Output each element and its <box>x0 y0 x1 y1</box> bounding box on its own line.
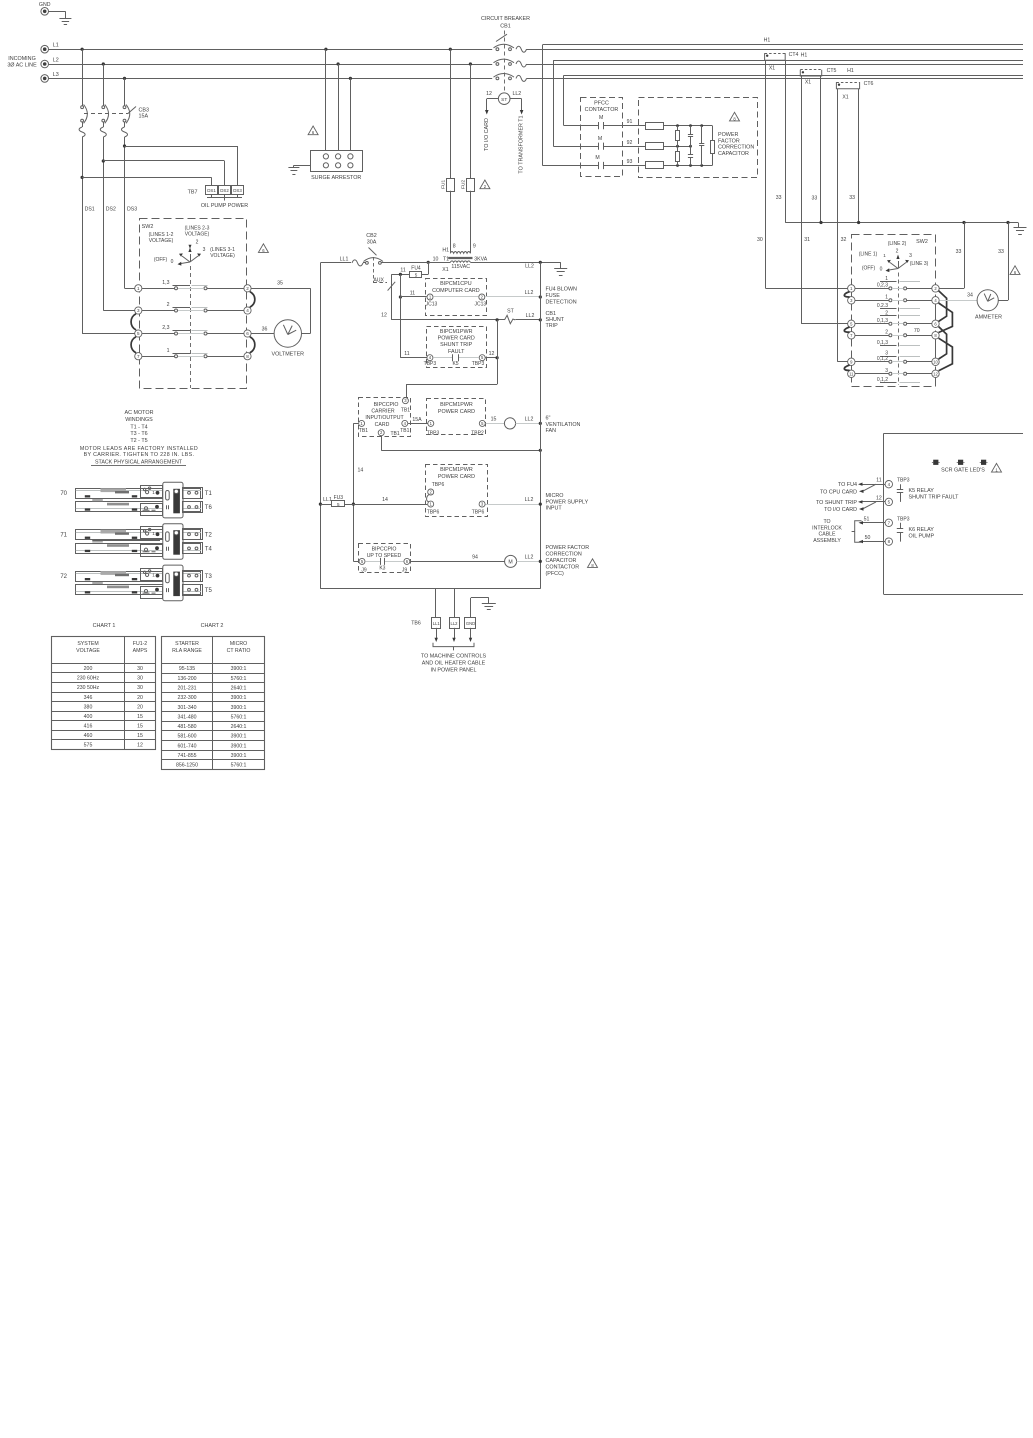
svg-text:L3: L3 <box>53 72 59 78</box>
svg-text:SHUNT TRIP FAULT: SHUNT TRIP FAULT <box>909 495 960 501</box>
svg-text:POWER FACTOR: POWER FACTOR <box>546 545 590 551</box>
svg-text:3900:1: 3900:1 <box>231 734 247 740</box>
svg-text:50: 50 <box>865 535 871 541</box>
svg-text:CT4: CT4 <box>789 52 799 58</box>
svg-text:6": 6" <box>546 415 551 421</box>
svg-text:2: 2 <box>896 249 899 255</box>
svg-text:12: 12 <box>489 351 495 357</box>
svg-text:FU1: FU1 <box>440 180 446 189</box>
svg-text:36: 36 <box>262 327 268 333</box>
svg-text:CARD: CARD <box>375 422 390 428</box>
svg-text:95-135: 95-135 <box>179 666 195 672</box>
svg-text:VOLTAGE): VOLTAGE) <box>149 238 174 244</box>
svg-text:TO I/O CARD: TO I/O CARD <box>824 507 857 513</box>
svg-text:(OFF): (OFF) <box>154 257 168 263</box>
svg-text:DS2: DS2 <box>106 207 116 213</box>
svg-text:30A: 30A <box>367 240 377 246</box>
svg-text:TB1: TB1 <box>391 431 400 437</box>
svg-text:BIPCM1PWR: BIPCM1PWR <box>440 467 473 473</box>
svg-text:34: 34 <box>967 292 973 298</box>
svg-text:COMPUTER CARD: COMPUTER CARD <box>432 288 480 294</box>
svg-text:FACTOR: FACTOR <box>718 138 740 144</box>
svg-text:3Ø AC LINE: 3Ø AC LINE <box>7 63 37 69</box>
svg-text:VENTILATION: VENTILATION <box>546 422 581 428</box>
svg-text:GND: GND <box>466 621 475 626</box>
svg-text:CARRIER: CARRIER <box>371 409 395 415</box>
svg-text:CHART 2: CHART 2 <box>201 623 224 629</box>
svg-text:2: 2 <box>885 310 888 316</box>
svg-text:CAPACITOR: CAPACITOR <box>546 558 577 564</box>
svg-text:12: 12 <box>381 312 387 318</box>
svg-text:3900:1: 3900:1 <box>231 666 247 672</box>
svg-text:TO FU4: TO FU4 <box>838 482 857 488</box>
svg-text:LL2: LL2 <box>512 91 521 97</box>
svg-text:346: 346 <box>84 695 93 701</box>
svg-text:CT6: CT6 <box>864 81 874 87</box>
svg-text:CT5: CT5 <box>827 68 837 74</box>
svg-text:15: 15 <box>137 723 143 729</box>
svg-text:33: 33 <box>812 196 818 202</box>
svg-text:14: 14 <box>358 467 364 473</box>
svg-text:ASSEMBLY: ASSEMBLY <box>813 538 841 544</box>
svg-text:2,3: 2,3 <box>162 325 169 331</box>
svg-text:3900:1: 3900:1 <box>231 753 247 759</box>
svg-text:(OFF): (OFF) <box>862 265 876 271</box>
svg-text:J9: J9 <box>402 567 408 573</box>
svg-text:TO: TO <box>823 519 830 525</box>
svg-text:T3 - T6: T3 - T6 <box>130 431 147 437</box>
svg-text:7: 7 <box>137 354 140 359</box>
svg-text:T3: T3 <box>205 574 213 580</box>
svg-text:LL1: LL1 <box>340 256 349 262</box>
svg-text:8: 8 <box>453 244 456 250</box>
svg-text:K5 RELAY: K5 RELAY <box>909 488 935 494</box>
svg-text:M: M <box>595 155 599 161</box>
svg-text:WINDINGS: WINDINGS <box>125 417 153 423</box>
svg-text:10: 10 <box>433 257 439 263</box>
svg-text:3900:1: 3900:1 <box>231 705 247 711</box>
svg-text:91: 91 <box>627 119 633 125</box>
svg-text:1: 1 <box>885 295 888 301</box>
svg-text:3900:1: 3900:1 <box>231 743 247 749</box>
svg-text:FU3: FU3 <box>334 495 344 501</box>
svg-text:70: 70 <box>914 328 920 334</box>
svg-text:SW2: SW2 <box>916 239 928 245</box>
svg-text:ST: ST <box>501 97 507 103</box>
svg-text:115VAC: 115VAC <box>451 264 470 270</box>
svg-text:LL2: LL2 <box>525 290 534 296</box>
svg-text:1: 1 <box>152 531 155 536</box>
svg-text:INTERLOCK: INTERLOCK <box>812 525 842 531</box>
svg-text:TBP6: TBP6 <box>432 482 445 488</box>
svg-text:AND OIL HEATER CABLE: AND OIL HEATER CABLE <box>422 661 486 667</box>
svg-text:93: 93 <box>627 159 633 165</box>
svg-text:MOTOR LEADS ARE FACTORY INSTAL: MOTOR LEADS ARE FACTORY INSTALLED <box>80 446 198 452</box>
svg-text:30: 30 <box>137 676 143 682</box>
svg-text:1: 1 <box>152 573 155 578</box>
svg-text:LL1: LL1 <box>323 497 332 503</box>
svg-text:TO SHUNT TRIP: TO SHUNT TRIP <box>816 500 857 506</box>
svg-text:TBP3: TBP3 <box>424 361 437 367</box>
svg-text:TO I/O CARD: TO I/O CARD <box>484 118 490 151</box>
svg-text:2: 2 <box>196 240 199 246</box>
svg-text:SHUNT TRIP: SHUNT TRIP <box>440 342 473 348</box>
svg-text:20: 20 <box>137 695 143 701</box>
svg-text:2: 2 <box>246 286 249 291</box>
svg-text:581-600: 581-600 <box>177 734 196 740</box>
svg-text:33: 33 <box>849 195 855 201</box>
svg-text:9: 9 <box>473 244 476 250</box>
svg-text:33: 33 <box>776 195 782 201</box>
svg-text:BIPCM1PWR: BIPCM1PWR <box>440 402 473 408</box>
svg-text:0: 0 <box>880 266 883 272</box>
svg-text:L2: L2 <box>53 57 59 63</box>
svg-text:14: 14 <box>382 497 388 503</box>
svg-text:OIL PUMP POWER: OIL PUMP POWER <box>201 203 248 209</box>
svg-text:TB6: TB6 <box>411 620 421 626</box>
svg-text:TBP3: TBP3 <box>427 430 440 436</box>
svg-text:15A: 15A <box>139 114 149 120</box>
svg-text:(LINE 1): (LINE 1) <box>859 252 878 258</box>
svg-text:32: 32 <box>841 237 847 243</box>
svg-text:71: 71 <box>60 533 67 539</box>
svg-text:94: 94 <box>472 554 478 560</box>
svg-text:741-855: 741-855 <box>177 753 196 759</box>
svg-text:15: 15 <box>137 733 143 739</box>
svg-text:CONTACTOR: CONTACTOR <box>585 107 619 113</box>
svg-text:15A: 15A <box>412 417 422 423</box>
svg-text:TO MACHINE CONTROLS: TO MACHINE CONTROLS <box>421 654 487 660</box>
svg-text:1: 1 <box>137 286 140 291</box>
svg-text:DS2: DS2 <box>220 188 229 193</box>
svg-text:DS3: DS3 <box>233 188 242 193</box>
svg-text:0: 0 <box>171 259 174 265</box>
svg-text:LL2: LL2 <box>525 497 534 503</box>
svg-text:15: 15 <box>137 714 143 720</box>
svg-text:LL2: LL2 <box>525 554 534 560</box>
svg-text:FU1-2: FU1-2 <box>133 641 148 647</box>
svg-text:POWER CARD: POWER CARD <box>438 336 475 342</box>
svg-text:BIPCM1CPU: BIPCM1CPU <box>440 281 472 287</box>
svg-text:POWER: POWER <box>718 132 738 138</box>
svg-text:FU4: FU4 <box>411 266 421 272</box>
svg-text:92: 92 <box>627 140 633 146</box>
svg-text:INPUT: INPUT <box>546 506 563 512</box>
svg-text:VOLTAGE): VOLTAGE) <box>185 232 210 238</box>
svg-text:(LINE 3): (LINE 3) <box>910 261 929 267</box>
svg-text:CT RATIO: CT RATIO <box>227 648 251 654</box>
svg-text:FUSE: FUSE <box>546 293 561 299</box>
svg-text:11: 11 <box>849 371 854 376</box>
svg-text:CONTACTOR: CONTACTOR <box>546 564 580 570</box>
svg-text:L1: L1 <box>53 43 59 49</box>
svg-text:232-300: 232-300 <box>177 695 196 701</box>
svg-text:0,1,2: 0,1,2 <box>877 377 888 383</box>
svg-text:0,1,3: 0,1,3 <box>877 318 888 324</box>
svg-text:TB7: TB7 <box>188 189 198 195</box>
svg-text:230 50Hz: 230 50Hz <box>77 685 100 691</box>
svg-text:200: 200 <box>84 666 93 672</box>
svg-text:460: 460 <box>84 733 93 739</box>
svg-text:TBP3: TBP3 <box>897 478 910 484</box>
svg-text:T4: T4 <box>205 547 213 553</box>
svg-text:FAN: FAN <box>546 428 557 434</box>
svg-text:K3: K3 <box>379 566 385 572</box>
svg-text:30: 30 <box>137 666 143 672</box>
svg-text:416: 416 <box>84 723 93 729</box>
svg-text:1,3: 1,3 <box>162 280 169 286</box>
svg-text:TB1: TB1 <box>359 428 368 434</box>
svg-text:31: 31 <box>804 237 810 243</box>
svg-text:SYSTEM: SYSTEM <box>77 641 98 647</box>
svg-text:TB1: TB1 <box>401 407 410 413</box>
svg-text:SCR GATE LED'S: SCR GATE LED'S <box>941 467 985 473</box>
svg-text:T1: T1 <box>205 491 213 497</box>
svg-text:H1: H1 <box>847 68 854 74</box>
svg-text:12: 12 <box>933 371 938 376</box>
svg-text:30: 30 <box>757 237 763 243</box>
svg-text:T1: T1 <box>443 256 449 262</box>
svg-text:33: 33 <box>956 249 962 255</box>
svg-text:4: 4 <box>246 308 249 313</box>
svg-text:CB2: CB2 <box>366 233 377 239</box>
svg-text:601-740: 601-740 <box>177 743 196 749</box>
svg-text:X1: X1 <box>842 95 848 101</box>
svg-text:STACK PHYSICAL ARRANGEMENT: STACK PHYSICAL ARRANGEMENT <box>95 459 183 465</box>
svg-text:1: 1 <box>152 490 155 495</box>
svg-text:TRIP: TRIP <box>546 323 559 329</box>
svg-text:POWER CARD: POWER CARD <box>438 474 475 480</box>
svg-text:341-480: 341-480 <box>177 714 196 720</box>
svg-text:LL1: LL1 <box>433 621 441 626</box>
svg-text:856-1250: 856-1250 <box>176 763 198 769</box>
svg-text:STARTER: STARTER <box>175 641 199 647</box>
svg-text:0,1,3: 0,1,3 <box>877 340 888 346</box>
svg-text:11: 11 <box>876 478 881 484</box>
svg-text:FAULT: FAULT <box>448 349 465 355</box>
svg-text:FU4 BLOWN: FU4 BLOWN <box>546 287 578 293</box>
svg-text:1: 1 <box>883 253 886 258</box>
svg-text:LL2: LL2 <box>525 417 534 423</box>
svg-text:DS1: DS1 <box>85 207 95 213</box>
svg-text:POWER CARD: POWER CARD <box>438 409 475 415</box>
svg-text:2640:1: 2640:1 <box>231 686 247 692</box>
svg-text:BY CARRIER. TIGHTEN TO 228 IN.: BY CARRIER. TIGHTEN TO 228 IN. LBS. <box>84 452 195 458</box>
svg-text:CB1: CB1 <box>500 23 511 29</box>
svg-text:TO TRANSFORMER T1: TO TRANSFORMER T1 <box>519 115 525 173</box>
svg-text:3900:1: 3900:1 <box>231 695 247 701</box>
svg-text:H1: H1 <box>764 38 771 44</box>
svg-text:BIPCCPIO: BIPCCPIO <box>372 547 397 553</box>
svg-text:CAPACITOR: CAPACITOR <box>718 151 749 157</box>
svg-text:PFCC: PFCC <box>594 100 609 106</box>
svg-text:CHART 1: CHART 1 <box>93 623 116 629</box>
svg-text:TBP3: TBP3 <box>472 361 485 367</box>
svg-text:301-340: 301-340 <box>177 705 196 711</box>
svg-text:M: M <box>598 136 602 142</box>
svg-text:T2 - T5: T2 - T5 <box>130 438 147 444</box>
svg-text:ST: ST <box>507 309 514 315</box>
svg-text:1: 1 <box>885 276 888 282</box>
svg-text:2: 2 <box>167 302 170 308</box>
svg-text:481-580: 481-580 <box>177 724 196 730</box>
svg-text:M: M <box>508 560 512 566</box>
svg-text:JC13: JC13 <box>474 302 486 308</box>
svg-text:12: 12 <box>137 742 143 748</box>
svg-text:AC MOTOR: AC MOTOR <box>125 410 154 416</box>
svg-text:M: M <box>599 115 603 121</box>
svg-text:AMPS: AMPS <box>133 648 148 654</box>
svg-text:2640:1: 2640:1 <box>231 724 247 730</box>
svg-text:TBP6: TBP6 <box>427 510 440 516</box>
svg-text:K5: K5 <box>452 361 458 367</box>
svg-text:12: 12 <box>876 495 882 501</box>
svg-text:10: 10 <box>933 359 938 364</box>
svg-text:11: 11 <box>410 290 415 296</box>
svg-text:3: 3 <box>909 253 912 259</box>
svg-text:SURGE ARRESTOR: SURGE ARRESTOR <box>311 175 361 181</box>
svg-text:OIL PUMP: OIL PUMP <box>909 534 935 540</box>
svg-text:CABLE: CABLE <box>818 532 836 538</box>
svg-text:BIPCCPIO: BIPCCPIO <box>374 402 399 408</box>
svg-text:5760:1: 5760:1 <box>231 763 247 769</box>
svg-text:X1: X1 <box>805 80 811 86</box>
svg-text:5760:1: 5760:1 <box>231 676 247 682</box>
svg-text:INPUT/OUTPUT: INPUT/OUTPUT <box>365 415 404 421</box>
svg-text:CIRCUIT BREAKER: CIRCUIT BREAKER <box>481 16 530 22</box>
svg-text:5: 5 <box>337 502 340 507</box>
svg-text:LL2: LL2 <box>451 621 459 626</box>
svg-text:JC13: JC13 <box>426 302 438 308</box>
svg-text:BIPCM1PWR: BIPCM1PWR <box>440 329 473 335</box>
svg-text:0,1,2: 0,1,2 <box>877 356 888 362</box>
svg-text:LL2: LL2 <box>525 264 534 270</box>
svg-text:35: 35 <box>277 281 283 287</box>
svg-text:12: 12 <box>486 91 492 97</box>
svg-text:230 60Hz: 230 60Hz <box>77 676 100 682</box>
svg-text:5760:1: 5760:1 <box>231 714 247 720</box>
svg-text:CORRECTION: CORRECTION <box>546 552 582 558</box>
svg-text:2: 2 <box>885 330 888 336</box>
svg-text:15: 15 <box>491 417 497 423</box>
svg-text:CB3: CB3 <box>139 107 150 113</box>
svg-text:MICRO: MICRO <box>546 493 564 499</box>
svg-text:6: 6 <box>246 331 249 336</box>
svg-text:3KVA: 3KVA <box>474 256 487 262</box>
svg-text:POWER SUPPLY: POWER SUPPLY <box>546 499 589 505</box>
svg-text:0.2.3: 0.2.3 <box>877 303 888 309</box>
svg-text:3: 3 <box>885 368 888 374</box>
svg-text:33: 33 <box>998 249 1004 255</box>
svg-text:CORRECTION: CORRECTION <box>718 145 754 151</box>
svg-text:TBP3: TBP3 <box>897 516 910 522</box>
svg-text:H1: H1 <box>442 248 449 254</box>
svg-text:136-200: 136-200 <box>177 676 196 682</box>
svg-text:LL2: LL2 <box>526 313 535 319</box>
svg-text:CB1: CB1 <box>546 311 557 317</box>
svg-text:(PFCC): (PFCC) <box>546 571 564 577</box>
svg-text:TB1: TB1 <box>400 428 409 434</box>
svg-text:30: 30 <box>137 685 143 691</box>
svg-text:FU2: FU2 <box>460 180 466 189</box>
svg-text:TBP6: TBP6 <box>472 510 485 516</box>
svg-text:400: 400 <box>84 714 93 720</box>
svg-text:MICRO: MICRO <box>230 641 247 647</box>
svg-text:IN POWER PANEL: IN POWER PANEL <box>430 668 476 674</box>
svg-text:TO CPU CARD: TO CPU CARD <box>820 489 857 495</box>
svg-text:0,2,3: 0,2,3 <box>877 283 888 289</box>
svg-text:DS3: DS3 <box>127 207 137 213</box>
svg-text:11: 11 <box>404 351 409 357</box>
svg-text:INCOMING: INCOMING <box>8 56 36 62</box>
svg-text:20: 20 <box>137 704 143 710</box>
svg-text:70: 70 <box>60 491 67 497</box>
svg-text:5: 5 <box>137 331 140 336</box>
svg-text:AMMETER: AMMETER <box>975 315 1002 321</box>
svg-text:AUX: AUX <box>373 277 384 283</box>
svg-text:VOLTAGE): VOLTAGE) <box>210 253 235 259</box>
svg-text:VOLTMETER: VOLTMETER <box>272 352 305 358</box>
svg-text:3: 3 <box>137 308 140 313</box>
svg-text:T1 - T4: T1 - T4 <box>130 425 147 431</box>
svg-text:T5: T5 <box>205 588 213 594</box>
svg-text:201-231: 201-231 <box>177 686 196 692</box>
svg-text:3: 3 <box>203 247 206 253</box>
svg-text:VOLTAGE: VOLTAGE <box>76 648 100 654</box>
svg-text:DETECTION: DETECTION <box>546 300 577 306</box>
svg-text:J9: J9 <box>361 567 367 573</box>
svg-text:DS1: DS1 <box>207 188 216 193</box>
svg-text:SHUNT: SHUNT <box>546 317 565 323</box>
svg-text:K6 RELAY: K6 RELAY <box>909 527 935 533</box>
svg-text:(LINE 2): (LINE 2) <box>888 241 907 247</box>
svg-text:72: 72 <box>60 574 67 580</box>
svg-text:5: 5 <box>415 273 418 278</box>
svg-text:51: 51 <box>864 516 870 522</box>
svg-text:SW2: SW2 <box>142 224 154 230</box>
svg-text:T2: T2 <box>205 532 213 538</box>
svg-text:T6: T6 <box>205 505 213 511</box>
svg-text:8: 8 <box>246 354 249 359</box>
svg-text:H1: H1 <box>801 53 808 59</box>
svg-text:1: 1 <box>167 348 170 354</box>
svg-text:11: 11 <box>400 267 405 273</box>
svg-text:380: 380 <box>84 704 93 710</box>
svg-text:X1: X1 <box>769 65 775 71</box>
svg-text:TBP2: TBP2 <box>471 430 484 436</box>
svg-text:RLA RANGE: RLA RANGE <box>172 648 202 654</box>
svg-text:X1: X1 <box>442 267 448 273</box>
svg-text:575: 575 <box>84 742 93 748</box>
